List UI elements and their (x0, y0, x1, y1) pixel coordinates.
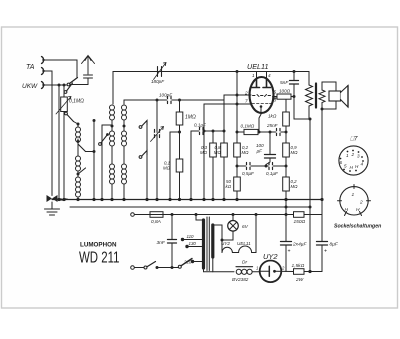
resistor 0.3MΩ body (210, 143, 217, 157)
heater bump UY2 (222, 247, 232, 252)
wire antenna to switch node (70, 84, 88, 86)
tube UEL11 envelope (250, 77, 274, 113)
capacitor 0.1µF coupling plates (200, 128, 204, 135)
vertical line x191 (190, 131, 192, 200)
output transformer primary lead (308, 72, 310, 86)
node x256 y214.5 (255, 213, 258, 216)
mains terminal lower (131, 266, 135, 270)
svg-text:2: 2 (244, 91, 248, 96)
svg-text:3nF: 3nF (157, 240, 166, 246)
IF coil column x112 section A (110, 105, 115, 120)
fuse inner line (150, 214, 163, 216)
electrolytic 2x4µF plates (281, 242, 292, 246)
vertical line x170 (169, 132, 171, 200)
coil L1b (76, 156, 81, 171)
secondary bottom wire (322, 101, 336, 109)
svg-text:Sockelschaltungen: Sockelschaltungen (334, 224, 381, 230)
resistor 0.9MΩ body (283, 143, 290, 157)
main ground bus y199.5 (52, 199, 322, 201)
wire 1k to 0.9M (285, 126, 287, 143)
tap wire 130 (187, 246, 202, 248)
socket circle 2 (340, 187, 368, 215)
coil L1a (76, 127, 81, 142)
node x94 top (93, 119, 96, 122)
node y207 end (309, 206, 312, 209)
resistor 0.2MΩ right body (283, 177, 290, 191)
resistor 0.1M ant, stub (63, 85, 65, 97)
rectifier UY2 envelope (260, 261, 282, 283)
trimmer 180pF arrow (154, 63, 167, 80)
node x286 y214.5 (285, 213, 288, 216)
pin8 to 1k wire (273, 98, 287, 112)
wire 0.1MΩ to bus (179, 172, 181, 200)
resistor 0.1MΩ body (61, 97, 68, 112)
svg-text:LUMOPHON: LUMOPHON (80, 242, 117, 249)
svg-text:6V: 6V (242, 224, 249, 230)
node (178, 131, 181, 134)
pin7 wire y104 (204, 103, 251, 105)
grid cap vertical x237 (236, 72, 238, 144)
wire 0.2M mid to y166 (236, 157, 238, 177)
svg-text:2W: 2W (295, 277, 304, 283)
wire middle jack down left column (44, 71, 53, 196)
capacitor 5nF plates (290, 81, 299, 85)
power transformer core lines (207, 217, 209, 271)
output transformer primary zigzag (306, 85, 313, 106)
cathode dot (260, 105, 263, 108)
mains wire upper (135, 214, 151, 216)
fuse 0.8A body (150, 212, 163, 218)
secondary bottom wire (212, 257, 214, 272)
vertical x224 grid feed (223, 95, 225, 143)
wire switch S3 to x94 (86, 151, 95, 153)
capacitor 3nF line x172 (171, 215, 173, 268)
svg-text:H: H (345, 207, 349, 213)
switch S4 diagonal (78, 168, 86, 174)
coil L1c leads (77, 171, 79, 200)
socket2 right tick (367, 200, 371, 202)
svg-text:3: 3 (357, 154, 360, 159)
output transformer secondary zigzag (319, 90, 325, 103)
capacitor 5nF feedback vertical line (293, 72, 295, 120)
wire 0.9M to y166 (285, 157, 287, 177)
wire contact upper (142, 121, 147, 127)
node y131 x213 (212, 130, 215, 133)
heater chain lead (221, 240, 223, 253)
capacitor 100pF gap mask (168, 99, 172, 101)
mains switch arm (147, 262, 156, 267)
svg-text:MΩ: MΩ (242, 150, 250, 155)
wire UKW (44, 84, 67, 86)
UY2 anode bar (268, 266, 270, 276)
IF coil column x124 section C (122, 164, 127, 184)
resistor 0.1MΩ arrow (56, 97, 71, 115)
selector arm (181, 259, 192, 266)
secondary bus y207 (70, 206, 310, 208)
node x237 top line (236, 70, 239, 73)
svg-text:0,5µF: 0,5µF (242, 171, 255, 176)
capacitor 0.1µF gap mask (269, 165, 273, 167)
svg-text:BV2382: BV2382 (232, 277, 249, 282)
wire (123, 120, 125, 131)
anode bar right (263, 79, 271, 88)
wire y100 grid line (124, 95, 251, 100)
anode bar left (252, 79, 260, 88)
vertical line x204 (203, 104, 205, 200)
wire 100pF top of x124 (123, 100, 125, 104)
resistor 0.3MΩ stub (212, 131, 214, 143)
wire (111, 146, 113, 164)
node x233 y214.5 (232, 213, 235, 216)
IF coil column x124 section A (122, 105, 127, 120)
svg-text:0,1MΩ: 0,1MΩ (241, 124, 255, 129)
svg-text:UY2: UY2 (221, 241, 230, 246)
svg-text:WD 211: WD 211 (79, 250, 120, 267)
node x237 y132 (236, 131, 239, 134)
lamp bottom wire (222, 231, 233, 240)
jack middle (42, 68, 44, 75)
switch S5 contact circle (99, 143, 102, 146)
switch S1 contact circle (67, 83, 70, 86)
vertical line x147 (146, 125, 148, 200)
svg-text:0,1µF: 0,1µF (194, 123, 207, 128)
node below L1a (77, 140, 80, 143)
transformer primary bottom wire (204, 268, 235, 272)
transformer primary connection top (196, 215, 204, 221)
switch S1 arm (70, 78, 78, 84)
svg-text:kΩ: kΩ (226, 184, 232, 189)
HT line x286 lower (285, 200, 287, 272)
wire y119 (294, 118, 310, 120)
heater bump UEL11 (239, 246, 252, 252)
svg-text:1: 1 (352, 192, 355, 198)
svg-text:2x4µF: 2x4µF (292, 242, 307, 248)
node x157 on y100 wire (156, 99, 159, 102)
socket circle 8pin (339, 146, 368, 175)
label 2W (295, 276, 303, 278)
tap dot 220 (191, 260, 194, 263)
choke core line (236, 266, 253, 268)
resistor 1.5kΩ body (294, 269, 305, 275)
power transformer primary winding (202, 220, 205, 268)
svg-text:MΩ: MΩ (163, 166, 171, 171)
tuning capacitor plates (155, 130, 160, 138)
ground bars (45, 209, 60, 215)
wire y166 row (237, 165, 286, 167)
cathode lead (259, 107, 261, 133)
svg-text:0,1µF: 0,1µF (266, 171, 279, 176)
electrolytic 100µF lower lead (266, 158, 270, 166)
node x124 (123, 125, 126, 128)
switch S5 arm (101, 135, 108, 143)
socket pins top row (340, 152, 364, 170)
mains terminal upper (131, 213, 135, 217)
tuning capacitor gap mask (155, 133, 160, 135)
switch wafer contact lower (139, 156, 142, 159)
svg-text:TA: TA (26, 64, 35, 71)
wire x170 top to x179.5 (170, 131, 180, 133)
svg-text:110: 110 (187, 234, 195, 239)
node cathode on y132 (258, 131, 261, 134)
node x237 y166 (236, 165, 239, 168)
svg-text:⎕7: ⎕7 (350, 136, 358, 143)
svg-text:2: 2 (351, 152, 355, 157)
svg-text:7: 7 (245, 99, 248, 104)
speaker cone (341, 86, 349, 108)
svg-text:1,5kΩ: 1,5kΩ (292, 263, 305, 269)
node x310 y271.5 (308, 270, 311, 273)
line y214.5 (163, 214, 322, 216)
wire 1.5k to node (304, 271, 322, 273)
svg-text:0,8A: 0,8A (151, 219, 161, 225)
vertical line x102 (101, 125, 103, 200)
vertical line x157 tuning (156, 100, 158, 200)
node x172 y214.5 (171, 213, 174, 216)
svg-text:MΩ: MΩ (291, 150, 299, 155)
svg-text:220: 220 (183, 260, 192, 265)
right vertical x322 down (321, 109, 323, 200)
svg-text:5: 5 (344, 164, 347, 169)
coil L1c (76, 177, 81, 197)
choke winding (236, 269, 252, 274)
vertical line x59 (58, 85, 60, 200)
node on UKW wire at x64 (63, 84, 66, 87)
secondary top wire to voice coil (322, 82, 336, 91)
svg-text:UEL11: UEL11 (237, 241, 251, 246)
electrolytic 8µF plates (317, 242, 328, 246)
UY2 right lead (275, 270, 294, 272)
wire 1MΩ to 0.1MΩ (179, 125, 181, 159)
wire (77, 144, 79, 156)
svg-text:100Ω: 100Ω (279, 89, 291, 94)
node x322 bus (320, 198, 323, 201)
speaker voice coil box (329, 91, 341, 101)
node x112 (111, 125, 114, 128)
svg-text:100pF: 100pF (159, 93, 173, 98)
grid dashes row (253, 95, 271, 97)
wire choke to UY2 (252, 271, 259, 273)
vertical line x94 (93, 120, 95, 200)
svg-text:130: 130 (189, 241, 197, 246)
output transformer primary bottom lead (309, 106, 310, 119)
capacitor 25nF plates (277, 129, 281, 136)
svg-text:MΩ: MΩ (214, 150, 222, 155)
svg-text:150Ω: 150Ω (294, 219, 306, 225)
node below L1b (77, 173, 80, 176)
resistor 150Ω body (294, 212, 305, 218)
antenna symbol (82, 56, 95, 75)
node S5 top (106, 133, 109, 136)
speaker cone edge (347, 86, 349, 108)
pin5 wire to 100R (273, 96, 278, 98)
node y131 x204 (203, 130, 206, 133)
jack middle tip dot (42, 70, 44, 72)
pilot lamp circle (228, 221, 239, 232)
svg-text:0,1MΩ: 0,1MΩ (69, 99, 84, 105)
socket2 top tick (353, 185, 355, 189)
tap dot 130 (185, 245, 188, 248)
capacitor 3nF plates (168, 240, 177, 244)
ground stem (51, 202, 53, 209)
node x286 y207 (285, 206, 288, 209)
wire switch to selector (157, 267, 179, 269)
tuning capacitor arrow (151, 127, 164, 142)
svg-text:4: 4 (361, 162, 364, 167)
resistor 0.1MΩ agc body (176, 159, 183, 172)
capacitor 100pF plates (168, 97, 172, 104)
svg-text:+: + (288, 249, 291, 255)
node x286 y166 (285, 165, 288, 168)
trimmer capacitor 180pF plates (152, 67, 167, 77)
switch S3 diagonal (78, 144, 86, 152)
selector arm circle (178, 265, 181, 268)
pilot lamp stub (232, 215, 234, 221)
svg-text:1: 1 (346, 153, 349, 158)
switch S2 contact circle (65, 112, 68, 115)
svg-text:1MΩ: 1MΩ (185, 115, 196, 121)
pilot lamp X (229, 222, 236, 229)
socket2 H ticks (345, 212, 362, 216)
wire 0.2M to bus (285, 191, 287, 200)
wire resistor down (63, 112, 65, 200)
resistor 0.8MΩ body (221, 143, 228, 157)
node on UKW wire at x59 (58, 84, 61, 87)
node x157 y267.5 (156, 266, 159, 269)
svg-text:MΩ: MΩ (291, 184, 299, 189)
top line node at x113 (112, 72, 114, 105)
capacitor 0.5µF gap mask (247, 165, 251, 167)
node y131 x224 (223, 130, 226, 133)
svg-text:UKW: UKW (22, 83, 38, 90)
output transformer core (315, 84, 317, 108)
wire y132 row (237, 131, 286, 133)
wire (77, 139, 79, 144)
resistor 0.1MΩ cathode horizontal (244, 129, 258, 134)
node x294 y96.5 (293, 95, 296, 98)
svg-text:1: 1 (252, 73, 255, 78)
node x266 y166 (265, 165, 268, 168)
IF coil column x124 section B (122, 131, 127, 146)
node x294 top (293, 70, 296, 73)
grid dashes row 2 (252, 103, 272, 105)
pin 4 stub (266, 72, 268, 80)
svg-text:UY2: UY2 (263, 252, 278, 261)
wire TA to switch top (44, 60, 78, 77)
node x196 y214.5 (195, 213, 198, 216)
right vertical x322 lower (321, 200, 323, 272)
switch S6 arm (67, 83, 73, 91)
socket pin dots (340, 150, 364, 172)
svg-text:6: 6 (340, 160, 343, 165)
resistor 0.2MΩ mid body (234, 143, 241, 157)
socket2 left tick (338, 200, 342, 202)
svg-text:4: 4 (268, 73, 271, 78)
node y240 (221, 239, 224, 242)
tap wire 110 (183, 239, 203, 241)
svg-text:100: 100 (256, 143, 264, 148)
svg-text:H: H (356, 207, 360, 213)
capacitor 0.1µF plates (269, 163, 273, 170)
pin 1 stub (256, 72, 258, 80)
resistor 1kΩ body (283, 112, 290, 126)
heater return wire (252, 215, 256, 253)
power transformer secondary winding (211, 225, 214, 257)
wire y131 coupling (191, 130, 224, 132)
svg-text:+: + (324, 249, 327, 255)
capacitor 0.5µF plates (247, 163, 251, 170)
node x322 y109 (321, 108, 324, 111)
wire (111, 120, 113, 131)
wire 0.8MΩ to bus (223, 157, 225, 200)
jack UKW (42, 82, 44, 89)
svg-text:5: 5 (274, 90, 277, 95)
wire 100R to node (291, 96, 294, 98)
capacitor 25nF gap mask (277, 131, 281, 133)
IF coil column x112 section B (110, 131, 115, 146)
svg-text:2: 2 (359, 200, 363, 206)
wire 50k to bus (236, 191, 238, 200)
node x310 y119 (309, 118, 312, 121)
svg-text:UEL11: UEL11 (247, 62, 268, 71)
tap wire 220 (193, 261, 203, 263)
jack UKW tip dot (42, 84, 44, 86)
node y104 x237 (236, 103, 239, 106)
transformer secondary top wire to heater (213, 225, 222, 240)
electrolytic 100µF plates (265, 155, 276, 159)
resistor 50kΩ body (234, 177, 241, 191)
resistor 0.2MΩ mid chain upper (236, 142, 238, 144)
main top wire y71.5 (113, 71, 309, 73)
node x237 y95 (236, 94, 239, 97)
bus node dots (57, 198, 287, 201)
svg-text:5nF: 5nF (280, 80, 289, 86)
wire x102 top corner (102, 124, 112, 126)
node x286 y132 (285, 131, 288, 134)
UY2 left lead (260, 270, 270, 272)
node x172 y267.5 (171, 266, 174, 269)
svg-text:1kΩ: 1kΩ (268, 114, 277, 119)
resistor 1MΩ stub (179, 100, 181, 112)
antenna series capacitor (84, 75, 93, 85)
tap dot 110 (181, 238, 184, 241)
svg-text:Dr: Dr (242, 260, 247, 266)
switch S2 arm below resistor (67, 115, 74, 122)
mains wire lower (135, 267, 145, 269)
svg-text:25nF: 25nF (266, 123, 279, 128)
node (93, 150, 96, 153)
heater link wire (232, 252, 238, 254)
IF coil column x112 section C (110, 164, 115, 184)
capacitor 0.1µF gap mask (200, 130, 204, 132)
wire into coil chain (74, 122, 79, 127)
svg-text:1: 1 (256, 266, 258, 271)
node 1MΩ top (178, 99, 181, 102)
wire (123, 146, 125, 164)
jack TA tip dot (42, 59, 44, 61)
switch wafer contact upper (139, 126, 142, 129)
resistor 100Ω horizontal body (277, 94, 291, 99)
UY2 cathode dot (273, 270, 276, 273)
switch S6 contact circle (64, 91, 67, 94)
wire 0.3MΩ to bus (212, 157, 214, 200)
node top of band chain (77, 123, 80, 126)
mains switch contact (144, 266, 147, 269)
vertical x310 HT (309, 119, 311, 272)
svg-text:8µF: 8µF (330, 242, 339, 248)
jack TA (42, 57, 44, 64)
node y132 x270 (269, 131, 272, 134)
svg-text:MΩ: MΩ (200, 150, 208, 155)
